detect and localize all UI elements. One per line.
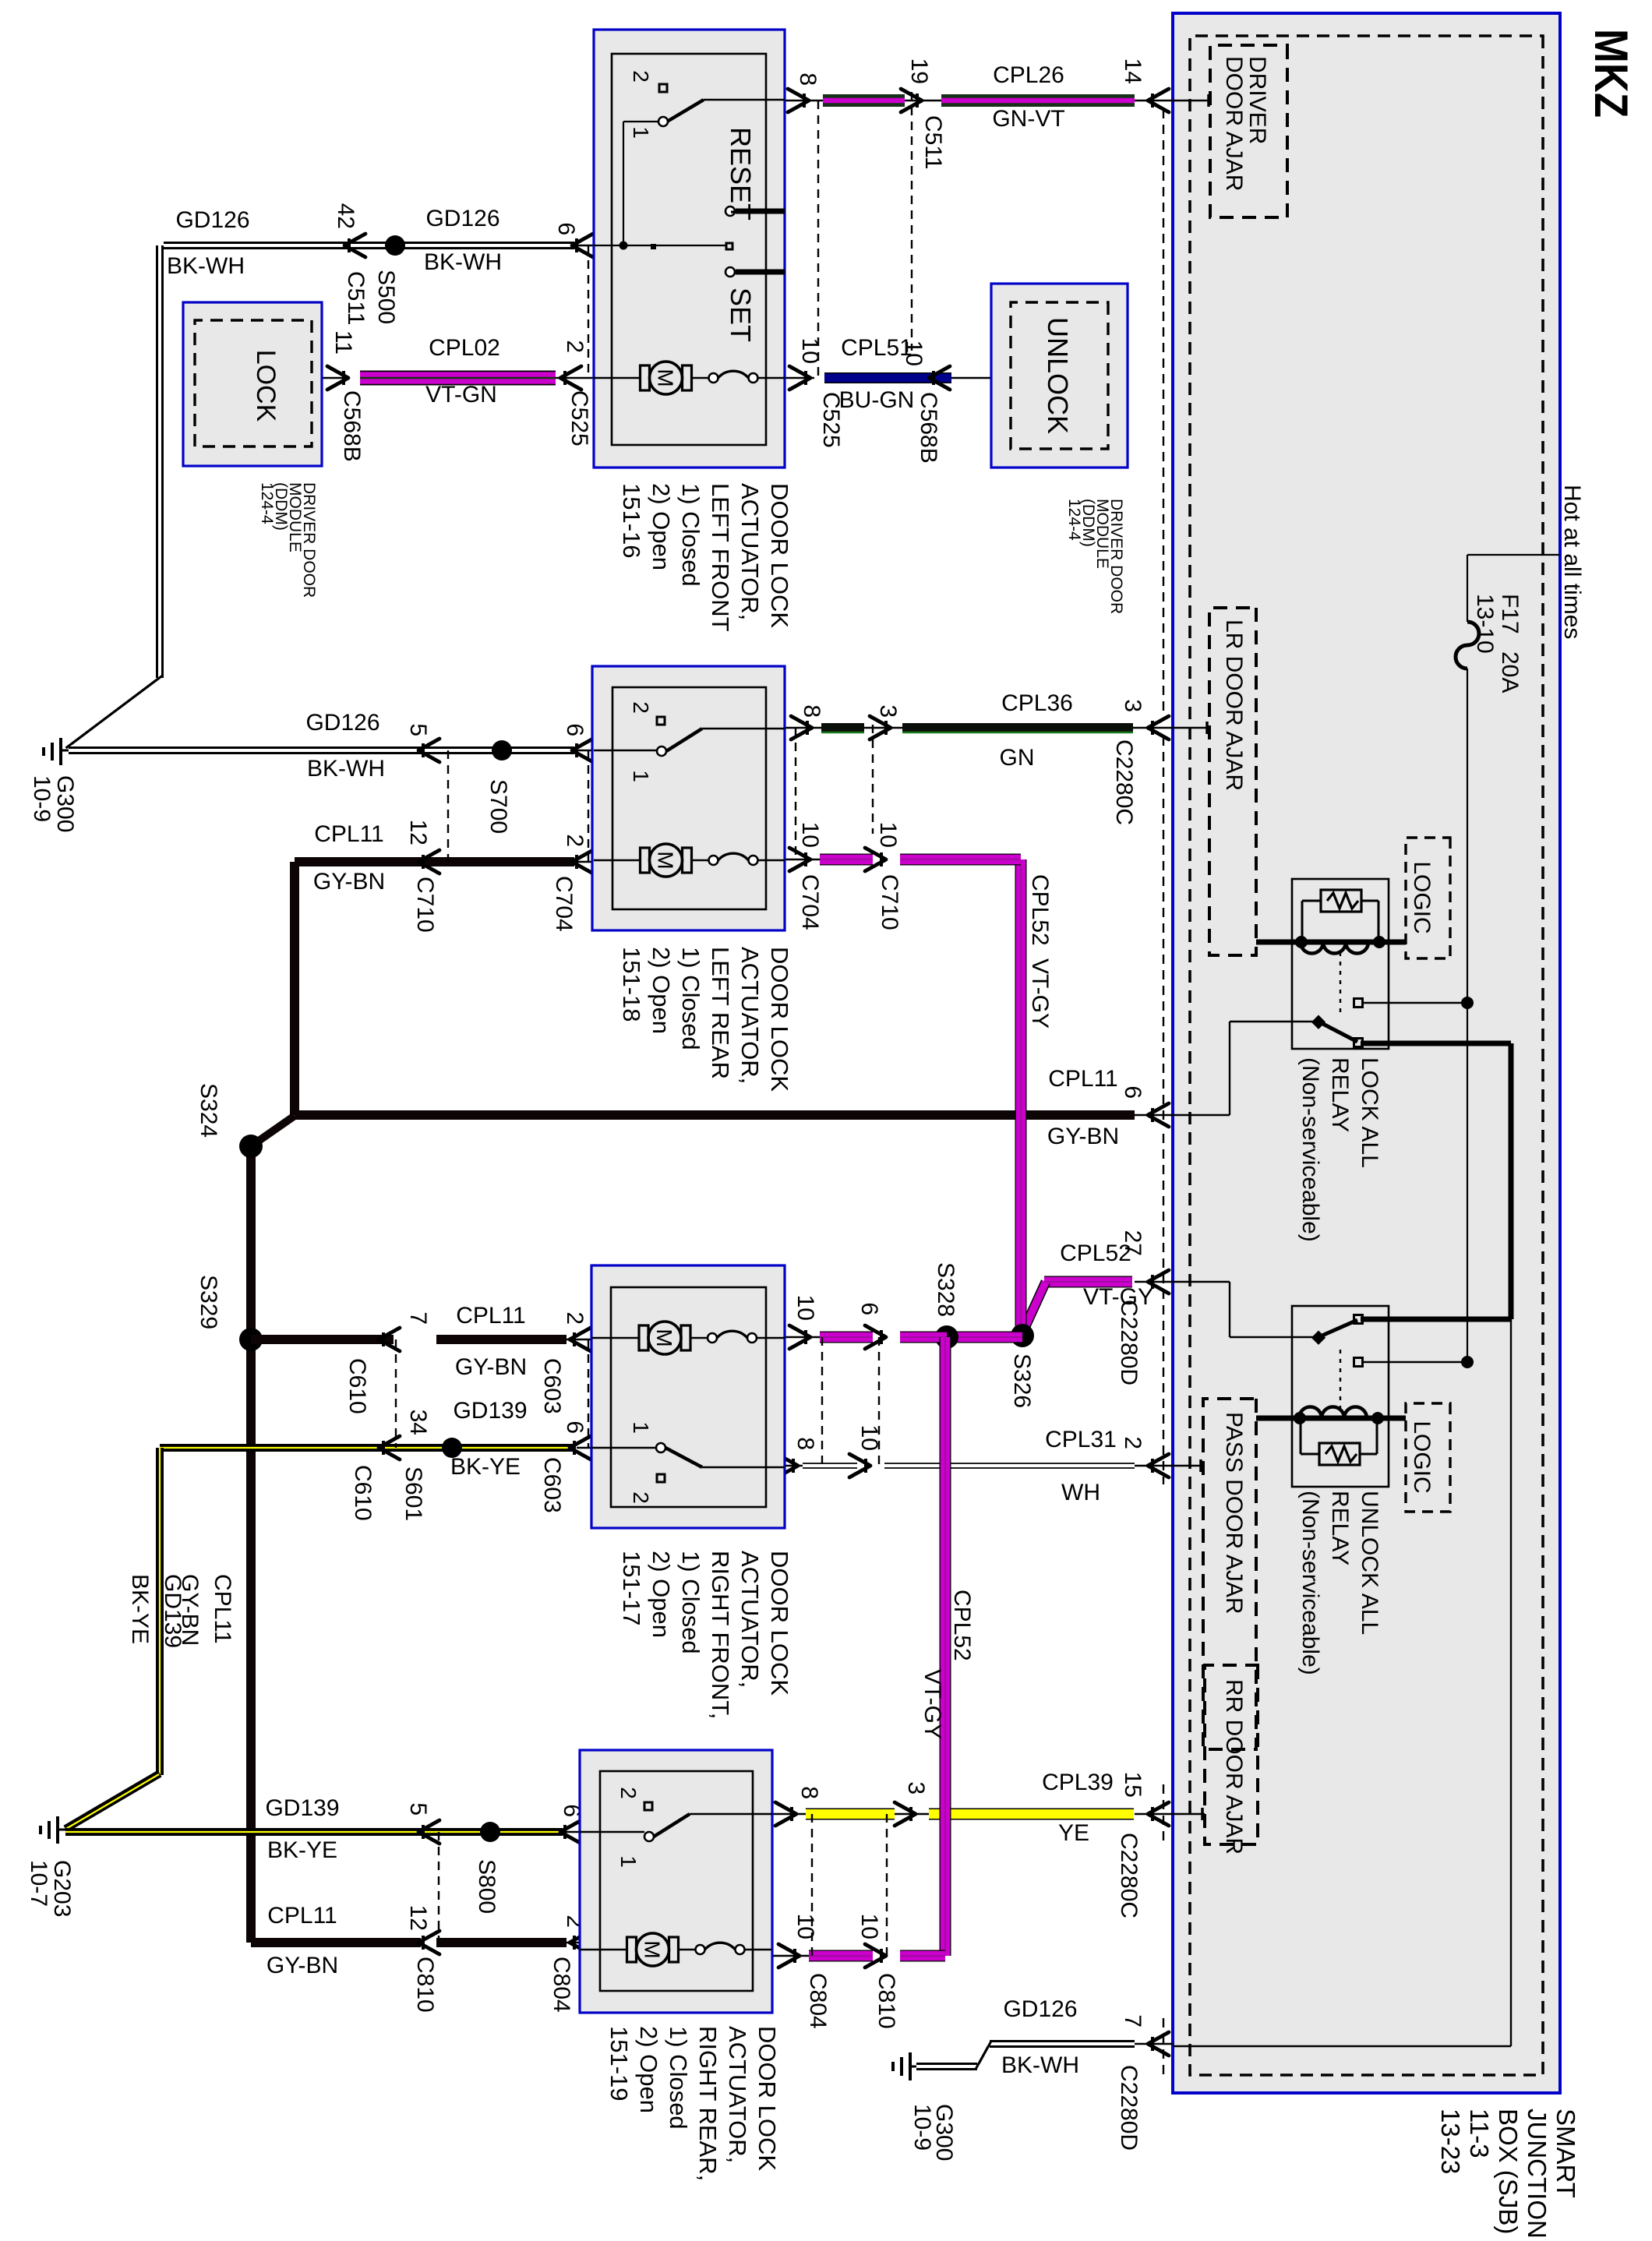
- svg-text:C603: C603: [539, 1358, 565, 1414]
- svg-text:C610: C610: [344, 1358, 370, 1414]
- svg-text:151-16: 151-16: [618, 483, 645, 559]
- svg-text:DOOR LOCK: DOOR LOCK: [766, 947, 793, 1092]
- fuse F17 20A: [1456, 594, 1523, 693]
- svg-text:S700: S700: [485, 779, 511, 834]
- label GD139 BK-YE (RF): [450, 1398, 528, 1480]
- connector arrow pin 34 C610: [350, 1410, 431, 1521]
- connector arrow pin 10 C710 LR: [865, 822, 902, 930]
- svg-text:VT-GY: VT-GY: [1027, 958, 1053, 1029]
- svg-text:BK-WH: BK-WH: [167, 253, 245, 279]
- svg-text:2: 2: [562, 340, 588, 353]
- wire CPL52 VT-GY pin 27: [1025, 1282, 1173, 1326]
- wire CPL26 GN-VT pin 14: [785, 100, 1173, 101]
- wire CPL51 BU-GN: [785, 377, 991, 379]
- svg-text:1) Closed: 1) Closed: [665, 2026, 692, 2130]
- RR DOOR AJAR box: [1205, 1665, 1258, 1855]
- svg-text:10-9: 10-9: [29, 775, 55, 822]
- svg-text:ACTUATOR,: ACTUATOR,: [736, 483, 764, 620]
- svg-text:GD139: GD139: [265, 1795, 339, 1821]
- wire CPL52 VT-GY LR branch: [785, 854, 1021, 866]
- rr door ajar stub to pin 15: [1173, 1808, 1205, 1820]
- svg-text:YE: YE: [1058, 1820, 1089, 1846]
- node power-unlockNO junction: [1461, 1356, 1474, 1368]
- svg-text:GN: GN: [1000, 745, 1035, 771]
- svg-text:Hot at all times: Hot at all times: [1559, 485, 1585, 639]
- driver door module UNLOCK box: [991, 284, 1128, 468]
- svg-text:C568B: C568B: [339, 390, 365, 462]
- svg-text:LEFT REAR: LEFT REAR: [707, 947, 734, 1079]
- svg-text:10: 10: [856, 1914, 882, 1939]
- label CPL11 GY-BN (pin6): [1047, 1066, 1119, 1149]
- label CPL31 WH: [1045, 1427, 1117, 1505]
- relay link thick wire: [1361, 1043, 1511, 1319]
- wire GD126 BK-WH left rear: [69, 748, 594, 753]
- connector arrow pin 3 mid: [870, 704, 901, 739]
- wire CPL11 main bus: [246, 1146, 256, 1943]
- svg-text:BK-YE: BK-YE: [267, 1837, 337, 1863]
- wire CPL11 GY-BN right front: [251, 1335, 591, 1344]
- wire CPL02 VT-GN: [322, 377, 594, 379]
- connector arrow pin 8 LF: [788, 72, 821, 112]
- svg-text:124-4: 124-4: [258, 482, 276, 524]
- svg-text:GD126: GD126: [305, 710, 379, 736]
- svg-text:10: 10: [792, 1914, 818, 1939]
- label GD139 BK-YE (RR): [265, 1795, 339, 1863]
- svg-text:CPL11: CPL11: [267, 1903, 337, 1929]
- svg-text:C603: C603: [539, 1457, 565, 1513]
- svg-text:DRIVER: DRIVER: [1244, 56, 1270, 144]
- svg-text:12: 12: [405, 1905, 431, 1931]
- svg-text:2: 2: [616, 1787, 641, 1799]
- connector arrow pin 15 C2280C: [1116, 1772, 1169, 1918]
- door lock actuator right front box: [591, 1265, 785, 1528]
- svg-text:ACTUATOR,: ACTUATOR,: [736, 947, 764, 1084]
- connector arrow pin 3 C2280C: [1111, 699, 1169, 825]
- connector arrow pin 10 C810 RR: [856, 1914, 899, 2029]
- connector C511 pin 42: [333, 203, 369, 326]
- svg-text:C511: C511: [920, 115, 946, 170]
- connector arrow pin 6 LR: [562, 723, 593, 762]
- svg-text:124-4: 124-4: [1065, 499, 1083, 541]
- svg-text:M: M: [641, 1940, 665, 1958]
- svg-text:12: 12: [405, 820, 431, 845]
- svg-text:PASS DOOR AJAR: PASS DOOR AJAR: [1221, 1412, 1247, 1615]
- SJB name label: [1436, 2109, 1580, 2239]
- connector arrow pin 2 C525: [560, 340, 592, 446]
- svg-text:WH: WH: [1061, 1480, 1100, 1505]
- label CPL11 GY-BN (bus): [177, 1574, 235, 1646]
- ground G300 (right): [893, 2052, 957, 2161]
- svg-text:2: 2: [562, 1311, 588, 1325]
- svg-text:VT-GY: VT-GY: [920, 1669, 945, 1739]
- DRIVER DOOR AJAR box: [1210, 45, 1287, 217]
- svg-text:3: 3: [875, 704, 901, 718]
- door lock actuator left front box: [594, 30, 785, 468]
- svg-text:VT-GY: VT-GY: [1083, 1284, 1153, 1310]
- svg-text:MKZ: MKZ: [1585, 29, 1637, 118]
- label CPL36 GN: [1000, 690, 1073, 771]
- svg-text:BK-WH: BK-WH: [307, 756, 385, 782]
- svg-text:(Non-serviceable): (Non-serviceable): [1297, 1491, 1323, 1675]
- svg-text:CPL52: CPL52: [1027, 874, 1053, 946]
- relay UNLOCK ALL RELAY box: [1292, 1306, 1389, 1487]
- svg-text:DOOR LOCK: DOOR LOCK: [754, 2026, 781, 2171]
- LF actuator label: [618, 483, 793, 632]
- door lock actuator right rear box: [580, 1750, 772, 2013]
- svg-text:20A: 20A: [1497, 651, 1523, 693]
- connector arrow pin 27: [1116, 1230, 1169, 1385]
- svg-text:8: 8: [795, 72, 821, 86]
- connector arrow pin 7 C2280D: [1116, 2014, 1169, 2151]
- splice S700: [485, 740, 512, 834]
- svg-text:CPL26: CPL26: [993, 62, 1064, 88]
- svg-text:2: 2: [1120, 1436, 1145, 1449]
- svg-text:1) Closed: 1) Closed: [677, 947, 704, 1050]
- svg-text:S601: S601: [401, 1466, 426, 1521]
- svg-text:C2280D: C2280D: [1116, 2065, 1142, 2151]
- splice S328: [933, 1262, 958, 1349]
- svg-text:1: 1: [629, 770, 653, 782]
- svg-text:BK-YE: BK-YE: [127, 1574, 153, 1644]
- svg-text:S324: S324: [196, 1083, 221, 1138]
- svg-text:SMART: SMART: [1551, 2109, 1580, 2198]
- lr door ajar stub to pin 3: [1173, 722, 1209, 734]
- wire GD126 BK-WH left front: [66, 243, 595, 749]
- ground G300 (left): [29, 738, 78, 832]
- wire GD139 BK-YE right rear: [65, 1831, 580, 1833]
- splice S800: [474, 1822, 500, 1914]
- svg-text:CPL52: CPL52: [949, 1590, 975, 1661]
- connector arrow pin 2 CPL31: [1120, 1436, 1169, 1477]
- svg-text:GN-VT: GN-VT: [992, 106, 1064, 132]
- svg-text:3: 3: [1120, 699, 1145, 712]
- svg-text:C2280C: C2280C: [1116, 1833, 1142, 1918]
- svg-text:6: 6: [553, 222, 579, 235]
- svg-text:M: M: [654, 851, 678, 869]
- lock relay common wire to pin 6: [1173, 1022, 1318, 1115]
- label CPL26 GN-VT: [992, 62, 1064, 132]
- svg-text:1: 1: [616, 1855, 641, 1868]
- label GD139 BK-YE (run): [127, 1574, 185, 1648]
- RF actuator label: [618, 1551, 793, 1719]
- splice S601: [401, 1438, 462, 1521]
- svg-text:7: 7: [405, 1311, 431, 1325]
- connector arrow pin 12 C810: [405, 1905, 439, 2013]
- svg-text:6: 6: [856, 1302, 882, 1315]
- splice S500: [331, 235, 405, 324]
- svg-text:GD126: GD126: [175, 207, 249, 233]
- svg-text:RELAY: RELAY: [1327, 1491, 1353, 1565]
- svg-text:CPL11: CPL11: [210, 1574, 235, 1644]
- wire CPL11 GY-BN pin 6: [251, 1115, 1173, 1146]
- svg-text:G203: G203: [49, 1860, 75, 1917]
- svg-text:2: 2: [629, 70, 653, 83]
- connector arrow pin 11 C568B: [327, 330, 365, 462]
- svg-text:C704: C704: [551, 876, 577, 932]
- svg-text:1: 1: [629, 126, 653, 139]
- svg-text:151-19: 151-19: [605, 2026, 633, 2102]
- svg-text:CPL11: CPL11: [314, 821, 384, 847]
- label GD126 BK-WH (lower): [167, 207, 250, 279]
- svg-text:6: 6: [562, 723, 588, 736]
- unlock relay resistor: [1301, 1421, 1377, 1465]
- svg-text:LEFT FRONT: LEFT FRONT: [707, 483, 734, 632]
- wire GD126 BK-WH pin 7: [916, 2042, 1173, 2070]
- unlock relay common wire to pin 27: [1173, 1282, 1318, 1337]
- svg-text:RESET: RESET: [725, 127, 757, 221]
- svg-text:SET: SET: [725, 288, 757, 342]
- RF switch: [591, 1421, 785, 1504]
- splice S324: [196, 1083, 263, 1158]
- connector arrow pin 6 C603 RF: [539, 1420, 591, 1512]
- wire GD139 BK-YE right front: [65, 1448, 591, 1830]
- svg-text:CPL02: CPL02: [429, 335, 500, 361]
- connector arrow pin 8 YE RR: [775, 1786, 822, 1826]
- svg-text:S328: S328: [933, 1262, 958, 1317]
- label GD126 BK-WH (upper): [424, 206, 502, 275]
- svg-text:LOCK ALL: LOCK ALL: [1357, 1057, 1382, 1168]
- svg-text:BK-YE: BK-YE: [450, 1454, 521, 1480]
- connector arrow pin 10 C568B: [901, 341, 950, 464]
- RR switch: [580, 1787, 772, 1868]
- svg-text:2: 2: [629, 1491, 653, 1504]
- LOCK module label: [258, 482, 318, 598]
- svg-text:GY-BN: GY-BN: [1047, 1124, 1119, 1149]
- svg-text:8: 8: [792, 1437, 818, 1450]
- connector arrow pin 6 mid RF: [856, 1302, 886, 1349]
- svg-text:2) Open: 2) Open: [648, 947, 675, 1034]
- svg-text:6: 6: [1120, 1085, 1145, 1099]
- LR switch: [594, 701, 785, 782]
- svg-text:CPL52: CPL52: [1060, 1240, 1131, 1266]
- svg-text:10: 10: [792, 1295, 818, 1321]
- connector arrow pin 6 LF: [553, 222, 593, 257]
- LR switch common lead: [594, 750, 657, 751]
- svg-text:C804: C804: [805, 1973, 831, 2029]
- svg-text:11-3: 11-3: [1465, 2109, 1494, 2158]
- svg-text:UNLOCK: UNLOCK: [1042, 317, 1074, 434]
- LF reset-set switch: [594, 70, 785, 342]
- svg-text:C804: C804: [549, 1957, 574, 2013]
- svg-text:(Non-serviceable): (Non-serviceable): [1297, 1057, 1323, 1242]
- label CPL02 VT-GN: [425, 335, 500, 408]
- svg-text:LOCK: LOCK: [251, 350, 281, 422]
- RR actuator label: [605, 2026, 781, 2181]
- label CPL52 VT-GY (LR): [1027, 874, 1053, 1029]
- svg-text:10-7: 10-7: [26, 1860, 51, 1907]
- label CPL11 GY-BN (RR): [267, 1903, 338, 1978]
- label CPL52 VT-GY (pin27): [1060, 1240, 1153, 1310]
- connector arrow pin 10 C704 LR: [789, 822, 823, 930]
- svg-text:LOGIC: LOGIC: [1409, 861, 1435, 933]
- svg-text:ACTUATOR,: ACTUATOR,: [724, 2026, 751, 2163]
- lock relay coil: [1256, 936, 1406, 954]
- unlock relay coil: [1256, 1407, 1406, 1425]
- svg-text:LR DOOR AJAR: LR DOOR AJAR: [1221, 619, 1247, 791]
- svg-text:13-10: 13-10: [1472, 594, 1498, 654]
- splice S326: [1009, 1324, 1035, 1408]
- svg-text:S800: S800: [474, 1859, 499, 1914]
- svg-text:5: 5: [405, 723, 431, 736]
- connector arrow pin 5: [405, 723, 439, 762]
- svg-text:15: 15: [1120, 1772, 1145, 1798]
- connector dashed lines between rows: [396, 92, 912, 1956]
- svg-text:7: 7: [1120, 2014, 1145, 2027]
- RF motor: [591, 1322, 785, 1354]
- splice S329: [196, 1275, 263, 1351]
- svg-text:S329: S329: [196, 1275, 221, 1329]
- svg-text:10-9: 10-9: [909, 2104, 935, 2151]
- door lock actuator left rear box: [592, 666, 785, 930]
- RR switch common lead: [580, 1831, 644, 1833]
- wire CPL31 WH pin 2: [785, 1463, 1173, 1468]
- ground G203: [26, 1816, 75, 1917]
- svg-text:11: 11: [330, 330, 356, 355]
- svg-text:C525: C525: [567, 390, 592, 446]
- svg-text:CPL36: CPL36: [1001, 690, 1073, 716]
- connector arrow pin 6 RR: [559, 1804, 584, 1844]
- svg-text:RR DOOR AJAR: RR DOOR AJAR: [1221, 1679, 1247, 1855]
- relay LOCK ALL RELAY box: [1292, 879, 1389, 1049]
- svg-text:RELAY: RELAY: [1327, 1057, 1353, 1132]
- svg-text:GY-BN: GY-BN: [267, 1953, 338, 1978]
- lock relay label: [1297, 1057, 1382, 1242]
- svg-text:1) Closed: 1) Closed: [677, 1551, 704, 1654]
- unlock relay dashed actuator link: [1340, 1350, 1341, 1412]
- svg-text:13-23: 13-23: [1436, 2109, 1465, 2174]
- wire CPL52 S326 to S328: [947, 1332, 1022, 1343]
- PASS DOOR AJAR box: [1203, 1399, 1256, 1749]
- svg-text:C511: C511: [343, 271, 369, 326]
- svg-text:GD126: GD126: [425, 206, 499, 231]
- label CPL39 YE: [1042, 1770, 1114, 1846]
- connector arrow pin 10 C804 RR: [778, 1914, 831, 2029]
- svg-text:C810: C810: [412, 1957, 438, 2013]
- connector arrow pin 6 SJB: [1120, 1085, 1169, 1127]
- svg-text:M: M: [654, 369, 678, 386]
- connector arrow pin 14: [1120, 58, 1169, 112]
- connector arrow pin 10 RF: [789, 1295, 818, 1349]
- driver door ajar stub to pin 14: [1173, 94, 1211, 107]
- connector arrow pin 2 C804: [549, 1915, 591, 2012]
- svg-text:RIGHT REAR,: RIGHT REAR,: [694, 2026, 722, 2181]
- svg-text:S500: S500: [373, 270, 399, 324]
- svg-text:BU-GN: BU-GN: [839, 387, 915, 413]
- connector arrow pin 7 C610: [344, 1311, 431, 1413]
- label CPL51 BU-GN: [839, 335, 915, 413]
- svg-text:5: 5: [405, 1802, 431, 1816]
- svg-text:2) Open: 2) Open: [635, 2026, 662, 2113]
- lock relay resistor: [1302, 890, 1378, 939]
- svg-text:1) Closed: 1) Closed: [677, 483, 704, 587]
- LOGIC box (lock): [1406, 838, 1450, 958]
- svg-text:8: 8: [796, 1786, 822, 1799]
- connector arrow pin 10 C525: [789, 338, 844, 448]
- label GD126 BK-WH (pin7): [1001, 1996, 1079, 2078]
- svg-text:2: 2: [562, 834, 588, 847]
- LF motor: [594, 362, 785, 394]
- node power-lockNO junction: [1461, 997, 1474, 1009]
- svg-text:CPL11: CPL11: [456, 1303, 526, 1329]
- svg-text:10: 10: [875, 822, 901, 848]
- SJB inner dashed boundary: [1190, 36, 1543, 2075]
- svg-text:BOX (SJB): BOX (SJB): [1494, 2109, 1523, 2234]
- svg-text:C810: C810: [874, 1973, 899, 2029]
- wire CPL52 VT-GY to RF pin 10: [785, 1332, 947, 1343]
- connector arrow pin 8 LR: [791, 704, 824, 739]
- pass door ajar stub to pin 2: [1173, 1459, 1203, 1472]
- svg-text:CPL31: CPL31: [1045, 1427, 1117, 1452]
- svg-text:DOOR LOCK: DOOR LOCK: [766, 483, 793, 628]
- svg-text:UNLOCK ALL: UNLOCK ALL: [1357, 1491, 1382, 1635]
- svg-text:GY-BN: GY-BN: [313, 869, 385, 895]
- svg-text:34: 34: [405, 1410, 431, 1435]
- svg-text:C710: C710: [877, 874, 902, 930]
- wire CPL11 GY-BN right rear: [251, 1938, 580, 1947]
- svg-text:10: 10: [797, 822, 823, 848]
- connector C511 pin 19: [901, 58, 946, 170]
- svg-text:DOOR LOCK: DOOR LOCK: [766, 1551, 793, 1696]
- connector arrow pin 2 C704: [551, 834, 593, 931]
- svg-text:F17: F17: [1497, 594, 1523, 634]
- svg-text:6: 6: [562, 1420, 588, 1434]
- wire relay link to pin 7: [1173, 1319, 1511, 2046]
- connector arrow pin 3 mid YE: [895, 1781, 929, 1826]
- wire CPL52 VT-GY S326 run: [1015, 859, 1027, 1332]
- driver door module LOCK box: [183, 302, 322, 466]
- svg-text:1: 1: [629, 1421, 653, 1434]
- svg-text:GD139: GD139: [453, 1398, 527, 1424]
- connector arrow pin 12 C710: [405, 820, 439, 933]
- svg-text:14: 14: [1120, 58, 1145, 84]
- svg-text:2) Open: 2) Open: [648, 1551, 675, 1638]
- lock relay switch: [1311, 999, 1463, 1047]
- svg-text:GD139: GD139: [160, 1574, 185, 1648]
- svg-text:ACTUATOR,: ACTUATOR,: [736, 1551, 764, 1688]
- lock relay dashed actuator link: [1340, 952, 1341, 1017]
- unlock relay switch: [1311, 1315, 1463, 1367]
- smart junction box SJB: [1173, 13, 1560, 2093]
- svg-text:2: 2: [629, 701, 653, 714]
- label CPL11 GY-BN (LR): [313, 821, 385, 895]
- connector arrow pin 5 RR: [405, 1802, 439, 1844]
- unlock relay label: [1297, 1491, 1382, 1675]
- svg-text:CPL11: CPL11: [1048, 1066, 1118, 1092]
- svg-text:LOGIC: LOGIC: [1409, 1420, 1435, 1493]
- connector C2280 dashed lines: [1163, 109, 1164, 2077]
- svg-text:JUNCTION: JUNCTION: [1523, 2109, 1551, 2239]
- svg-text:C2280C: C2280C: [1111, 739, 1137, 825]
- svg-text:8: 8: [799, 704, 824, 718]
- connector arrow pin 8 WH RF: [777, 1437, 818, 1477]
- label GD126 BK-WH (LR): [305, 710, 385, 782]
- svg-text:42: 42: [333, 203, 358, 229]
- svg-text:C568B: C568B: [916, 392, 941, 464]
- svg-text:RIGHT FRONT,: RIGHT FRONT,: [707, 1551, 734, 1719]
- svg-text:CPL51: CPL51: [841, 335, 912, 361]
- wire power feed from Hot at all times: [1467, 555, 1560, 1362]
- svg-text:DOOR AJAR: DOOR AJAR: [1221, 56, 1247, 191]
- svg-text:2) Open: 2) Open: [648, 483, 675, 570]
- svg-text:VT-GN: VT-GN: [425, 382, 497, 408]
- svg-text:C704: C704: [797, 874, 823, 930]
- label CPL11 GY-BN (RF): [455, 1303, 527, 1380]
- svg-text:CPL39: CPL39: [1042, 1770, 1114, 1795]
- svg-text:BK-WH: BK-WH: [424, 249, 502, 275]
- svg-text:M: M: [652, 1329, 676, 1346]
- svg-text:151-18: 151-18: [618, 947, 645, 1022]
- svg-text:C710: C710: [412, 877, 438, 933]
